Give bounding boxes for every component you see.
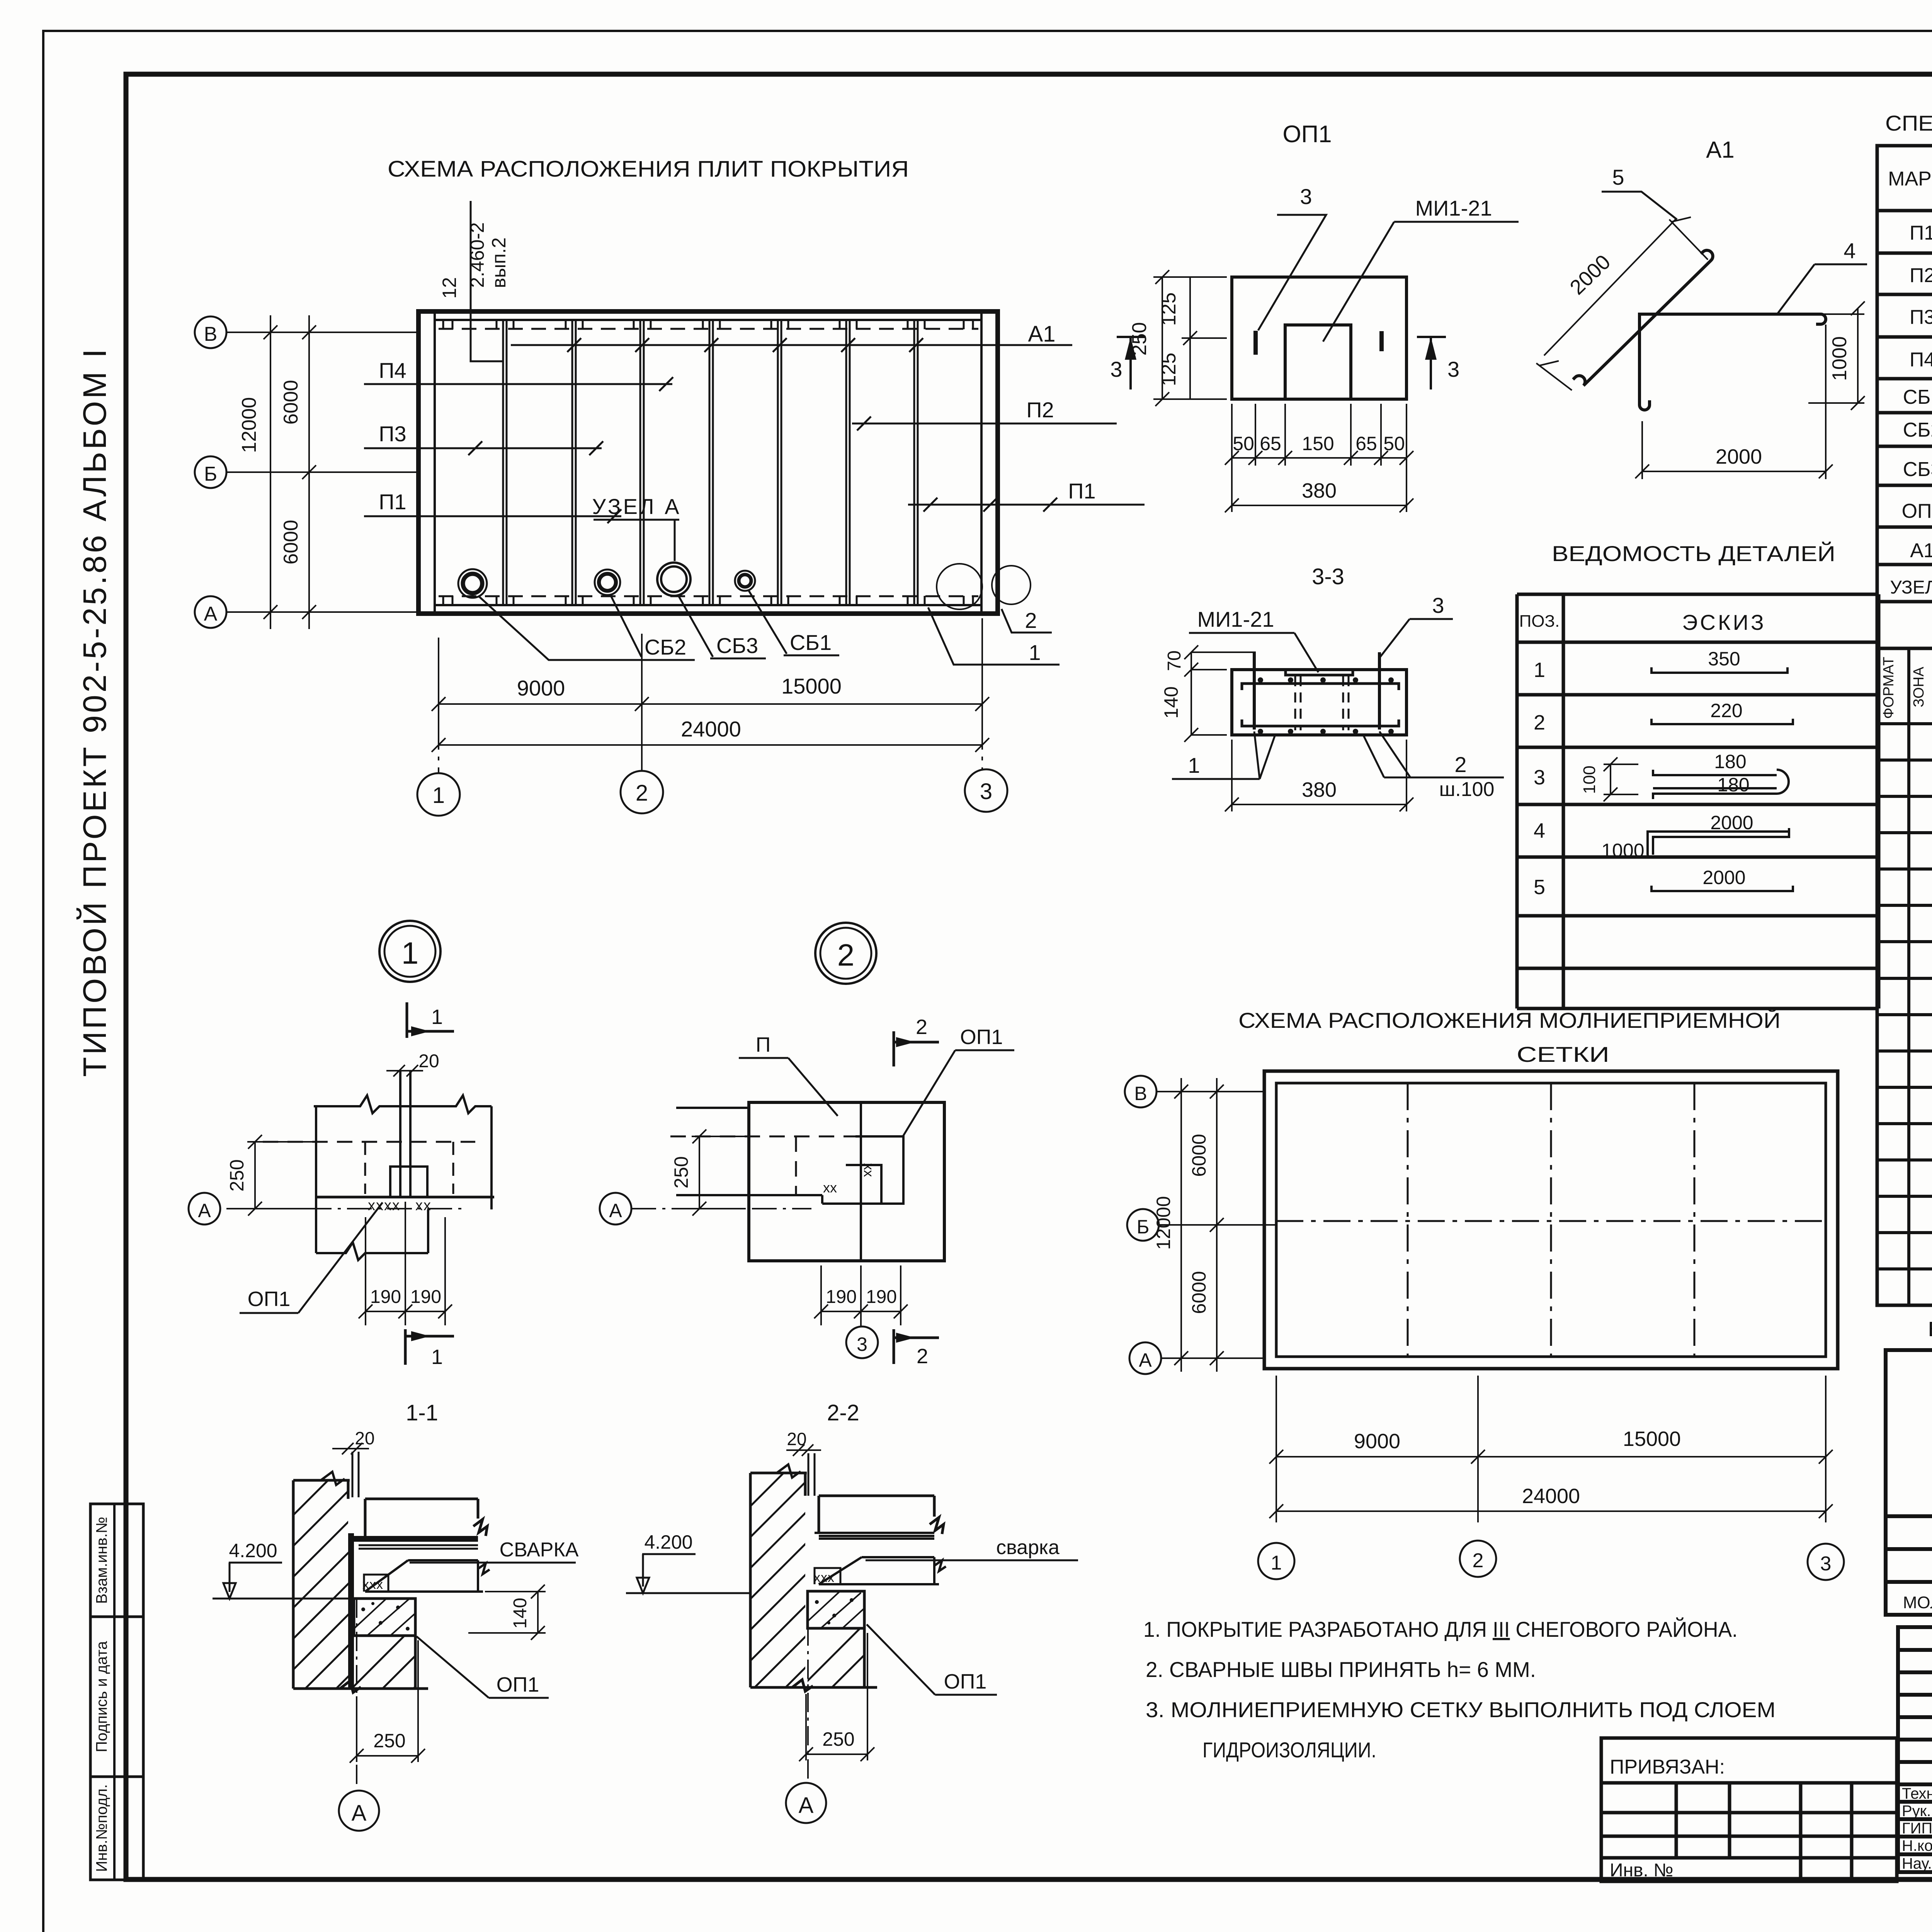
rebar dots bottom: [1258, 729, 1394, 734]
svg-text:Техник: Техник: [1902, 1785, 1932, 1802]
OP1 label node1: [240, 1202, 383, 1313]
dim 250 left of node2: [692, 1129, 746, 1216]
OP1 rebar marks: [1253, 331, 1258, 355]
svg-text:24000: 24000: [681, 717, 741, 741]
1-1 dim 20: [332, 1428, 375, 1497]
svg-text:П3: П3: [379, 422, 406, 446]
svg-text:1000: 1000: [1601, 840, 1644, 861]
plate joint gap lines: [400, 1071, 410, 1197]
wall bottom region: [316, 1242, 428, 1260]
svg-text:ВЕДОМОСТЬ ДЕТАЛЕЙ: ВЕДОМОСТЬ ДЕТАЛЕЙ: [1552, 541, 1835, 566]
anchor bars vertical: [1254, 652, 1379, 730]
svg-text:380: 380: [1302, 479, 1337, 502]
svg-text:250: 250: [822, 1728, 854, 1750]
svg-text:3: 3: [1432, 593, 1444, 617]
svg-text:Нау.АСО: Нау.АСО: [1902, 1855, 1932, 1872]
OP1 bottom dims 50 65 150 65 50: [1225, 404, 1413, 466]
bearing pad ticks bottom edge: [443, 596, 973, 605]
spec1 row P3: [1910, 306, 1932, 328]
dims 190 190 node1: [359, 1202, 452, 1325]
grid mesh dash-dot lines: [1276, 1083, 1826, 1357]
leader 1 bottom left: [1172, 731, 1275, 779]
plan inner wall lines: [435, 311, 981, 614]
rebar dots top: [1258, 677, 1394, 683]
svg-text:А: А: [352, 1801, 367, 1826]
leader 2 and sh.100: [1363, 731, 1504, 801]
svg-text:1: 1: [1534, 658, 1545, 682]
svg-text:СЕТКИ: СЕТКИ: [1517, 1042, 1609, 1066]
spec1 row P1: [1910, 210, 1932, 251]
plate label P2 right: [852, 398, 1117, 430]
svg-text:А1: А1: [1028, 321, 1056, 347]
P label node2: [739, 1033, 838, 1116]
svg-text:А: А: [1139, 1349, 1152, 1371]
2-2 svarka label: [866, 1536, 1078, 1560]
node 1 bubble: [379, 921, 440, 982]
plan outer wall rectangle: [418, 311, 998, 614]
svg-text:190: 190: [410, 1287, 441, 1307]
svg-text:2: 2: [636, 781, 648, 806]
2-2 dim 20: [786, 1429, 821, 1496]
weld x marks: [368, 1197, 432, 1214]
spec1 row P4: [1910, 349, 1932, 371]
svg-text:2: 2: [1454, 752, 1466, 777]
svg-text:Рук.гр.: Рук.гр.: [1902, 1803, 1932, 1820]
node2 weld marks: [823, 1163, 877, 1196]
spec2 grid: [1877, 648, 1932, 1305]
spec1 row SB1: [1903, 386, 1932, 408]
node2 slab edges left: [676, 1108, 822, 1195]
svg-text:2: 2: [1025, 608, 1037, 633]
2-2 axis circle A: [786, 1593, 826, 1823]
svg-text:СБ3: СБ3: [1903, 458, 1932, 481]
plate label P3: [364, 422, 603, 455]
2-2 embedded plate double line: [815, 1533, 934, 1539]
svg-text:вып.2: вып.2: [488, 237, 510, 288]
svg-text:СПЕЦИФИКАЦИЯ К СХЕМЕ РАСПОЛ: СПЕЦИФИКАЦИЯ К СХЕМЕ РАСПОЛОЖЕНИЯ ПЛИТ П…: [1885, 111, 1932, 135]
svg-text:А: А: [609, 1200, 622, 1221]
svg-text:А1: А1: [1910, 539, 1932, 562]
section mark 2 lower: [894, 1329, 939, 1368]
sleeve circle SB2b: [595, 570, 620, 595]
svg-text:СБ2: СБ2: [645, 635, 686, 659]
svg-text:П: П: [756, 1033, 771, 1056]
svg-text:20: 20: [418, 1051, 439, 1071]
svg-text:9000: 9000: [517, 676, 565, 700]
svg-text:2. СВАРНЫЕ ШВЫ ПРИНЯТЬ: 2. СВАРНЫЕ ШВЫ ПРИНЯТЬ h= 6 ММ.: [1146, 1657, 1536, 1682]
2-2 OP1 label: [867, 1624, 997, 1695]
leader MI1-21: [1323, 196, 1519, 342]
dim 250 left: [1153, 270, 1227, 406]
anchor bar horizontal+vertical (pos 4): [1639, 314, 1826, 410]
row 3: U-bar 180/180: [1534, 751, 1789, 801]
bottom dim 24000: [432, 738, 989, 752]
svg-text:МОЛНИЕЗАЩИТА: МОЛНИЕЗАЩИТА: [1903, 1593, 1932, 1612]
plate label P1 left: [364, 490, 621, 523]
A axis circle node2: [600, 1193, 631, 1225]
dims 70 / 140: [1184, 645, 1256, 742]
bearing line: [315, 1196, 494, 1199]
svg-text:15000: 15000: [781, 674, 842, 698]
section mark 3 right: [1417, 337, 1459, 389]
svg-text:xxxx: xxxx: [368, 1197, 400, 1214]
svg-text:П4: П4: [1910, 349, 1932, 371]
svg-text:СБ2: СБ2: [1903, 419, 1932, 441]
column axis circle 1: [417, 726, 460, 816]
svg-text:xxx: xxx: [362, 1577, 383, 1592]
dim 20 top: [386, 1051, 439, 1077]
svg-text:3: 3: [1110, 357, 1122, 381]
node2 joint vertical: [860, 1102, 862, 1261]
svg-text:СБ1: СБ1: [1903, 386, 1932, 408]
svg-text:70: 70: [1164, 650, 1185, 671]
mesh row axis circle V: [1125, 1076, 1264, 1107]
bearing pad ticks top edge: [443, 320, 973, 329]
svg-text:П3: П3: [1910, 306, 1932, 328]
1-1 dim 250: [350, 1640, 425, 1763]
plate label P1 right: [908, 479, 1145, 512]
section mark 1 lower: [405, 1329, 454, 1369]
svg-text:190: 190: [370, 1287, 401, 1307]
svg-text:12000: 12000: [1153, 1196, 1174, 1250]
left margin stamp boxes: [90, 1504, 143, 1880]
uzel A label and leader: [592, 494, 681, 561]
svg-text:2: 2: [837, 938, 855, 972]
3-3 pad body: [1232, 670, 1406, 735]
mesh bottom dims: [1269, 1376, 1833, 1522]
svg-text:МАРКА: МАРКА: [1888, 168, 1932, 190]
svg-text:65: 65: [1355, 433, 1377, 454]
2-2 level mark 4.200: [626, 1531, 750, 1593]
leader note 12 / 2.460-2 vyp.2: [439, 201, 510, 361]
svg-text:190: 190: [866, 1287, 897, 1307]
dim 2000 along bar: [1536, 217, 1708, 390]
svg-text:100: 100: [1580, 765, 1599, 794]
mesh vertical dims 6000/6000/12000: [1174, 1078, 1224, 1372]
hidden wall edge dashed: [263, 1141, 475, 1143]
2-2 OP1 pad concrete: [808, 1591, 864, 1628]
svg-text:1: 1: [1029, 640, 1041, 665]
svg-text:125: 125: [1158, 293, 1180, 326]
svg-text:2.460-2: 2.460-2: [466, 222, 488, 288]
svg-text:П4: П4: [379, 358, 406, 383]
1-1 OP1 label: [417, 1636, 549, 1698]
node2 hidden slab dashed: [670, 1136, 855, 1195]
svg-text:1: 1: [432, 783, 445, 808]
vertical dim 12000: [264, 315, 277, 629]
bottom dim 9000 / 15000: [432, 618, 989, 726]
OP1 pad outline: [1232, 277, 1406, 399]
svg-text:ОП1: ОП1: [1282, 121, 1332, 148]
column axis circle 2: [621, 726, 663, 813]
svg-text:сварка: сварка: [996, 1536, 1060, 1559]
mesh row axis circle B: [1127, 1209, 1276, 1241]
grid outer rect: [1264, 1071, 1838, 1369]
svg-text:СБ3: СБ3: [716, 633, 758, 658]
svg-text:ОП1: ОП1: [248, 1287, 291, 1311]
row 4: L-bar 2000/1000: [1534, 812, 1789, 861]
node2 axis A dash-dot: [631, 1208, 811, 1209]
svg-text:65: 65: [1260, 433, 1281, 454]
section mark 1 upper: [407, 1002, 454, 1038]
svg-text:6000: 6000: [280, 380, 302, 425]
svg-text:4: 4: [1844, 238, 1855, 263]
grid inner rect: [1276, 1083, 1826, 1357]
svg-text:3: 3: [1820, 1553, 1832, 1575]
svg-text:ЗОНА: ЗОНА: [1911, 667, 1927, 707]
svg-text:УЗЕЛ А: УЗЕЛ А: [1890, 577, 1932, 598]
svg-text:2: 2: [917, 1345, 928, 1368]
detail 4 leader: [1777, 238, 1867, 314]
dim 2000 bottom: [1635, 325, 1833, 479]
svg-text:5: 5: [1612, 165, 1624, 189]
svg-text:П1: П1: [1910, 222, 1932, 244]
SB3 label: [679, 596, 766, 658]
svg-text:4.200: 4.200: [229, 1540, 277, 1561]
svg-text:1: 1: [431, 1005, 443, 1029]
svg-text:Б: Б: [1137, 1216, 1150, 1238]
dim 380: [1225, 740, 1413, 811]
svg-text:220: 220: [1710, 700, 1742, 721]
SB1 label: [749, 591, 839, 655]
top horizontal bar with hooks: [1242, 684, 1399, 690]
svg-text:1: 1: [401, 936, 419, 970]
svg-text:А: А: [799, 1793, 814, 1818]
1-1 embedded plate double line: [359, 1545, 478, 1549]
svg-text:2: 2: [916, 1015, 927, 1039]
column axis circle 3: [965, 726, 1007, 812]
node2 inner pad corner: [846, 1165, 881, 1204]
row 1: bar 350: [1534, 648, 1787, 682]
svg-text:12000: 12000: [238, 397, 260, 453]
svg-text:ЭСКИЗ: ЭСКИЗ: [1682, 610, 1766, 634]
OP1 notch: [1285, 325, 1351, 399]
OP1 label node2: [903, 1026, 1014, 1137]
node2 wall square: [749, 1102, 944, 1261]
svg-text:4.200: 4.200: [644, 1531, 692, 1553]
axis 3 circle below node2: [846, 1310, 878, 1358]
svg-text:СВАРКА: СВАРКА: [500, 1539, 579, 1561]
spec1 row P2: [1910, 264, 1932, 287]
2-2 dim 250: [799, 1633, 874, 1761]
leader 3 top right: [1380, 593, 1453, 657]
svg-text:12: 12: [439, 277, 460, 299]
svg-text:20: 20: [355, 1428, 374, 1448]
svg-text:6000: 6000: [1188, 1134, 1210, 1177]
1-1 weld plate thick line: [350, 1536, 478, 1542]
bottom horizontal bar with hooks: [1242, 719, 1399, 726]
svg-text:250: 250: [670, 1156, 692, 1188]
svg-text:350: 350: [1708, 648, 1740, 670]
svg-text:3: 3: [1300, 184, 1312, 209]
1-1 wall hatched: [270, 1418, 390, 1816]
section mark 2 upper: [894, 1015, 939, 1066]
svg-text:ОП1: ОП1: [1902, 500, 1932, 522]
svg-text:140: 140: [1160, 686, 1182, 718]
leader to label 2: [1002, 609, 1052, 633]
svg-text:ФОРМАТ: ФОРМАТ: [1881, 657, 1897, 719]
svg-text:П2: П2: [1910, 264, 1932, 287]
svg-text:П2: П2: [1026, 398, 1054, 422]
OP1 dim 380: [1225, 466, 1413, 512]
axis A dash-dot: [226, 1208, 464, 1209]
svg-text:СХЕМА РАСПОЛОЖЕНИЯ ПЛИТ ПОКР: СХЕМА РАСПОЛОЖЕНИЯ ПЛИТ ПОКРЫТИЯ: [388, 156, 909, 182]
mesh axis circles 1 2 3: [1258, 1543, 1294, 1579]
leader MI1-21: [1189, 607, 1318, 672]
svg-text:ГИПконс.: ГИПконс.: [1902, 1820, 1932, 1837]
2-2 wall hatched: [726, 1410, 846, 1808]
A1 anchor callout line with ticks: [511, 344, 1072, 346]
1-1 svarka label: [410, 1539, 579, 1563]
svg-text:В: В: [1134, 1083, 1147, 1104]
1-1 wall below pad: [293, 1636, 428, 1692]
svg-text:Взам.инв.№: Взам.инв.№: [94, 1517, 111, 1604]
svg-text:Б: Б: [204, 463, 217, 485]
hidden pad edges dashed: [365, 1142, 453, 1194]
vertical dim chain 6000/6000: [302, 315, 316, 629]
dims 190 190 node2: [814, 1265, 908, 1325]
svg-text:ТИПОВОЙ ПРОЕКТ 902-5-25.86: ТИПОВОЙ ПРОЕКТ 902-5-25.86 АЛЬБОМ I: [77, 347, 113, 1077]
hidden stud dashed lines: [1295, 676, 1349, 730]
svg-text:24000: 24000: [1522, 1485, 1580, 1508]
sleeve circle SB2a: [458, 569, 487, 598]
svg-text:ВЕДОМОСТЬ РАСХОДА СТАЛИ НА: ВЕДОМОСТЬ РАСХОДА СТАЛИ НА ЭЛЕМЕНТ КГ: [1928, 1318, 1932, 1341]
anchor bar diagonal (pos 5): [1573, 250, 1713, 386]
1-1 upper plate: [365, 1499, 487, 1536]
svg-text:50: 50: [1233, 433, 1254, 454]
leader to label 1: [928, 607, 1060, 665]
svg-text:4: 4: [1534, 819, 1545, 842]
2-2 anchor block with welds: [815, 1568, 840, 1584]
SB2 label: [479, 595, 695, 660]
dim 250 left of node1: [247, 1135, 320, 1216]
svg-text:3-3: 3-3: [1312, 564, 1344, 589]
node 2 bubble: [815, 923, 876, 984]
svg-text:УЗЕЛ А: УЗЕЛ А: [592, 494, 681, 519]
svg-text:250: 250: [226, 1159, 248, 1191]
svg-text:Инв.№подл.: Инв.№подл.: [94, 1784, 111, 1872]
2-2 wall below pad: [750, 1628, 877, 1691]
svg-text:ПРИВЯЗАН:: ПРИВЯЗАН:: [1610, 1756, 1725, 1778]
svg-text:180: 180: [1717, 774, 1749, 796]
svg-text:СХЕМА РАСПОЛОЖЕНИЯ МОЛНИЕ: СХЕМА РАСПОЛОЖЕНИЯ МОЛНИЕПРИЕМНОЙ: [1238, 1008, 1781, 1032]
MI1-21 plate on top: [1286, 670, 1353, 675]
svg-text:xx: xx: [823, 1180, 837, 1196]
svg-text:ш.100: ш.100: [1439, 778, 1495, 801]
mesh row axis circle A: [1129, 1342, 1264, 1374]
svg-text:1: 1: [431, 1345, 443, 1369]
svg-text:15000: 15000: [1623, 1427, 1681, 1451]
svg-text:ПОЗ.: ПОЗ.: [1519, 612, 1560, 631]
svg-text:6000: 6000: [280, 520, 302, 565]
svg-text:1: 1: [1188, 753, 1200, 777]
callout circle node 1: [937, 564, 982, 609]
svg-text:2000: 2000: [1702, 867, 1745, 888]
2-2 lower plate rib: [819, 1557, 946, 1584]
svg-text:А: А: [198, 1200, 211, 1221]
spec1 row OP1: [1902, 500, 1932, 522]
svg-text:2: 2: [1534, 711, 1545, 734]
svg-text:1000: 1000: [1828, 336, 1851, 381]
svg-text:3: 3: [857, 1333, 867, 1355]
svg-text:250: 250: [373, 1730, 405, 1752]
svg-text:xxx: xxx: [814, 1570, 835, 1585]
svg-text:Подпись и дата: Подпись и дата: [94, 1641, 111, 1752]
table grid: [1517, 594, 1879, 1009]
row 2: bar 220: [1534, 700, 1793, 734]
svg-text:1-1: 1-1: [406, 1400, 438, 1425]
svg-text:Инв. №: Инв. №: [1610, 1860, 1673, 1881]
spec1 row UZEL A: [1890, 573, 1932, 598]
A axis circle node1: [189, 1193, 220, 1225]
svg-text:140: 140: [510, 1598, 531, 1629]
svg-text:3: 3: [1447, 357, 1459, 381]
svg-text:ОП1: ОП1: [944, 1670, 987, 1693]
steel row molniezashchita: [1903, 1588, 1932, 1613]
svg-text:СБ1: СБ1: [790, 630, 832, 655]
row axis circle B: [195, 456, 418, 488]
svg-text:2000: 2000: [1716, 445, 1762, 468]
1-1 OP1 pad concrete: [354, 1599, 415, 1636]
svg-text:1. ПОКРЫТИЕ РАЗРАБОТАНО ДЛЯ: 1. ПОКРЫТИЕ РАЗРАБОТАНО ДЛЯ III СНЕГОВОГ…: [1143, 1617, 1738, 1641]
OP1 pad outline in plan: [390, 1167, 427, 1197]
steel table grid: [1886, 1350, 1932, 1615]
callout circle node 2: [992, 566, 1031, 604]
1-1 axis circle A: [339, 1599, 379, 1831]
svg-text:А: А: [204, 603, 218, 625]
1-1 lower plate rib: [365, 1560, 490, 1592]
svg-text:9000: 9000: [1354, 1430, 1400, 1453]
1-1 anchor vertical bar: [348, 1533, 354, 1689]
svg-text:П1: П1: [1068, 479, 1095, 503]
row axis circle A: [195, 596, 418, 628]
svg-text:А1: А1: [1706, 137, 1734, 163]
svg-text:ОП1: ОП1: [960, 1026, 1003, 1049]
spec1 row SB3: [1903, 458, 1932, 481]
svg-text:П1: П1: [379, 490, 406, 514]
stamp signature rows: [1902, 1785, 1932, 1872]
svg-text:380: 380: [1302, 778, 1337, 801]
svg-text:ГИДРОИЗОЛЯЦИИ.: ГИДРОИЗОЛЯЦИИ.: [1202, 1738, 1376, 1762]
spec1 grid: [1877, 146, 1932, 648]
svg-text:125: 125: [1158, 353, 1180, 386]
detail 5 leader: [1602, 165, 1677, 219]
svg-text:1: 1: [1271, 1552, 1282, 1574]
1-1 level mark 4.200: [213, 1540, 350, 1599]
node2 OP1 pad: [822, 1136, 903, 1204]
plate label P4: [364, 358, 673, 391]
svg-text:Н.контр.: Н.контр.: [1902, 1837, 1932, 1854]
svg-text:3. МОЛНИЕПРИЕМНУЮ СЕТКУ ВЫ: 3. МОЛНИЕПРИЕМНУЮ СЕТКУ ВЫПОЛНИТЬ ПОД СЛ…: [1146, 1697, 1776, 1722]
2-2 upper plate: [819, 1496, 944, 1534]
plate joint lines: [503, 320, 918, 605]
svg-text:50: 50: [1383, 433, 1405, 454]
svg-text:2: 2: [1473, 1549, 1484, 1572]
spec1 row A1: [1910, 539, 1932, 562]
sleeve circle SB1: [735, 571, 755, 591]
sleeve circle SB3: [657, 563, 690, 596]
svg-text:ОП1: ОП1: [497, 1673, 539, 1696]
svg-text:6000: 6000: [1188, 1271, 1210, 1314]
svg-text:2-2: 2-2: [827, 1400, 859, 1425]
svg-text:МИ1-21: МИ1-21: [1415, 196, 1492, 220]
leader 3 (top): [1258, 184, 1326, 330]
1-1 dim 140: [468, 1585, 546, 1640]
slab left/right verticals: [316, 1106, 492, 1253]
1-1 anchor block with welds: [364, 1575, 388, 1592]
svg-text:В: В: [204, 323, 218, 345]
slab top edge with breaks: [314, 1095, 492, 1113]
